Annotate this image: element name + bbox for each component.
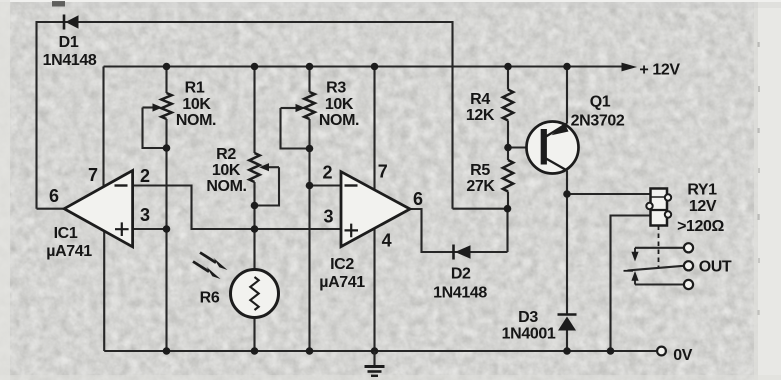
wire Q1 base <box>508 146 542 148</box>
svg-text:6: 6 <box>49 186 59 206</box>
svg-text:10K: 10K <box>325 96 354 113</box>
junction 0V IC1 <box>163 347 171 355</box>
op-amp IC1 <box>64 171 132 247</box>
svg-text:2N3702: 2N3702 <box>571 113 625 130</box>
wire IC2 pin 7 <box>373 67 375 191</box>
terminal OUT bottom <box>684 280 693 289</box>
wire collector node to D3 <box>566 194 568 315</box>
wire 0V rail <box>104 350 657 352</box>
svg-text:+ 12V: + 12V <box>639 62 680 79</box>
junction R2 top <box>251 63 259 71</box>
junction R4 top <box>504 63 512 71</box>
diode D2 1N4148 <box>454 245 471 260</box>
svg-text:µA741: µA741 <box>46 243 92 260</box>
wire D2 node up <box>506 209 508 252</box>
svg-text:RY1: RY1 <box>687 182 717 199</box>
junction R2 wiper <box>251 202 259 210</box>
svg-text:R2: R2 <box>216 146 236 163</box>
ground IC2 pin 4 <box>365 351 385 376</box>
terminal OUT middle <box>684 261 693 270</box>
wire R6 top <box>253 229 255 270</box>
junction R3 wiper <box>306 145 314 153</box>
svg-text:12V: 12V <box>689 198 717 215</box>
wire IC2 pin 4 to ground <box>373 228 375 351</box>
transistor Q1 2N3702 <box>527 122 579 174</box>
wire relay coil return <box>611 216 651 352</box>
svg-text:>120Ω: >120Ω <box>677 218 724 235</box>
svg-text:1N4148: 1N4148 <box>433 285 487 302</box>
svg-text:6: 6 <box>413 189 423 209</box>
terminal 0V <box>657 347 666 356</box>
svg-text:2: 2 <box>322 163 332 183</box>
R3 wiper arrow and loop <box>281 107 297 109</box>
potentiometer R1 <box>165 67 167 94</box>
junction IC2 pin7 rail <box>371 63 379 71</box>
wire IC1 pin 2 to IC2 pin 3 <box>133 186 341 230</box>
svg-text:D3: D3 <box>518 309 538 326</box>
terminal OUT top <box>684 243 693 252</box>
svg-text:NOM.: NOM. <box>319 112 359 129</box>
diode D1 1N4148 <box>64 15 79 30</box>
junction R2 R6 node <box>251 225 259 233</box>
wire IC2 pin 2 <box>310 184 342 186</box>
diode D3 1N4001 <box>558 315 577 331</box>
junction 0V relay <box>607 347 615 355</box>
wire IC1 pin 7 <box>102 67 104 187</box>
junction 0V D3 <box>563 347 571 355</box>
junction IC1 pin3 node <box>163 225 171 233</box>
photocell R6 <box>231 270 279 318</box>
junction 0V R6 <box>251 347 259 355</box>
relay contact top <box>635 247 684 249</box>
svg-text:µA741: µA741 <box>319 274 365 291</box>
R1 wiper arrow and loop <box>143 106 155 108</box>
junction Q1 base divider <box>504 144 512 152</box>
+12V arrow <box>622 63 638 72</box>
wire feedback right vertical <box>451 21 453 209</box>
junction R3 top <box>306 63 314 71</box>
svg-text:2: 2 <box>140 166 150 186</box>
svg-text:NOM.: NOM. <box>206 178 246 195</box>
svg-text:1N4001: 1N4001 <box>502 326 556 343</box>
svg-text:OUT: OUT <box>699 259 732 276</box>
svg-text:R1: R1 <box>185 80 205 97</box>
wire IC2 output via D2 <box>410 209 508 252</box>
wire Q1 collector down <box>566 171 568 195</box>
potentiometer R2 <box>253 67 255 154</box>
svg-text:7: 7 <box>378 162 388 182</box>
junction R1 top <box>163 63 171 71</box>
svg-text:IC1: IC1 <box>54 225 78 242</box>
svg-text:Q1: Q1 <box>590 94 611 111</box>
relay coil RY1 <box>646 189 671 226</box>
wire collector node to relay coil <box>567 193 651 195</box>
junction 0V ground <box>371 347 379 355</box>
relay contact bottom <box>635 283 684 285</box>
svg-text:D1: D1 <box>59 34 79 51</box>
junction 0V R3 <box>306 347 314 355</box>
svg-text:R4: R4 <box>470 91 490 108</box>
relay contact pole <box>628 266 684 271</box>
R6 light arrows <box>193 253 228 280</box>
svg-text:3: 3 <box>323 207 333 227</box>
wire +12V rail <box>104 65 624 67</box>
relay armature dashed link <box>658 226 660 268</box>
junction R1 wiper <box>163 144 171 152</box>
svg-text:R6: R6 <box>200 290 220 307</box>
svg-text:3: 3 <box>140 205 150 225</box>
wire IC1 pin 3 <box>133 228 167 230</box>
potentiometer R3 <box>308 67 310 93</box>
resistor R5 <box>507 148 509 161</box>
wire top feedback rail <box>37 21 453 23</box>
wire feedback to node <box>453 208 508 210</box>
svg-text:0V: 0V <box>673 347 692 364</box>
svg-text:7: 7 <box>88 165 98 185</box>
wire R6 bottom <box>253 317 255 351</box>
svg-text:10K: 10K <box>212 162 241 179</box>
svg-text:12K: 12K <box>466 107 495 124</box>
junction Q1 emitter rail <box>563 63 571 71</box>
wire D3 to 0V <box>566 331 568 352</box>
wire Q1 emitter to +12V <box>566 67 568 124</box>
resistor R4 <box>507 67 509 90</box>
junction D2 R5 node <box>504 205 512 213</box>
svg-text:4: 4 <box>382 231 392 251</box>
svg-text:10K: 10K <box>182 96 211 113</box>
junction IC2 pin2 node <box>306 182 314 190</box>
svg-text:NOM.: NOM. <box>176 112 216 129</box>
R2 wiper arrow and loop <box>267 166 279 168</box>
wire left vertical rail <box>35 21 37 209</box>
svg-text:D2: D2 <box>451 266 471 283</box>
svg-text:27K: 27K <box>466 178 495 195</box>
svg-text:IC2: IC2 <box>330 256 354 273</box>
svg-text:R5: R5 <box>470 162 490 179</box>
op-amp IC2 <box>341 172 410 247</box>
svg-text:1N4148: 1N4148 <box>43 52 97 69</box>
junction Q1 collector node <box>563 190 571 198</box>
wire IC1 pin 4 to 0V <box>103 231 105 351</box>
wire IC1 output pin 6 <box>37 208 66 210</box>
scan edge marks <box>0 0 781 2</box>
svg-text:R3: R3 <box>326 80 346 97</box>
